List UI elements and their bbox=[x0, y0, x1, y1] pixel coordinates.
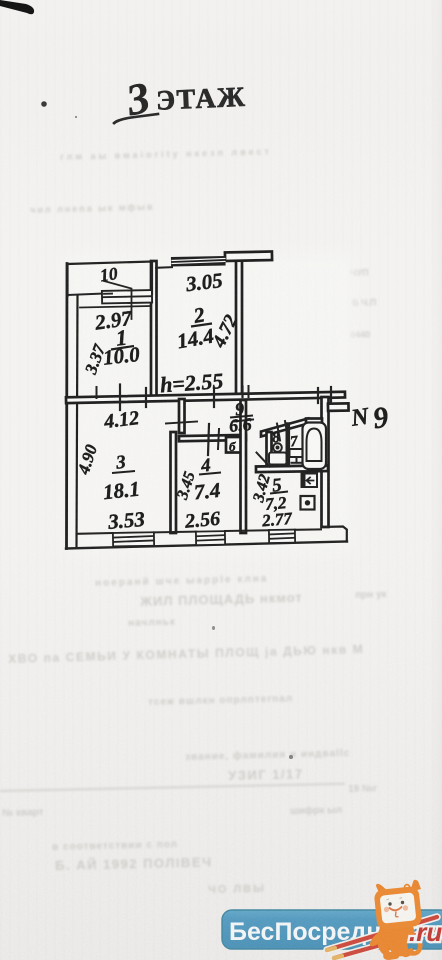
wall room3|corridor stub bbox=[179, 399, 185, 433]
svg-text:3.53: 3.53 bbox=[106, 507, 146, 534]
bath top wall piece bbox=[306, 419, 322, 424]
svg-text:7.4: 7.4 bbox=[193, 478, 222, 505]
title underline bbox=[114, 114, 158, 123]
divider overshoot tick 2 bbox=[248, 386, 250, 397]
door tick bbox=[119, 385, 121, 411]
bottom window 2 bbox=[196, 531, 225, 545]
dark speck bbox=[212, 626, 215, 630]
ghost bleed line 17 bbox=[30, 202, 155, 215]
door tick bbox=[145, 388, 147, 407]
plan paper brightening bbox=[64, 254, 354, 552]
door tick right bbox=[317, 388, 319, 403]
room2 window dark bbox=[171, 256, 226, 267]
svg-text:10.0: 10.0 bbox=[102, 342, 142, 370]
right outer wall bbox=[322, 397, 329, 527]
ghost bleed line 11 bbox=[290, 805, 342, 817]
svg-text:б: б bbox=[229, 439, 236, 454]
room1 top line bbox=[80, 306, 151, 308]
feet bbox=[383, 952, 399, 960]
divider overshoot tick bbox=[241, 387, 243, 398]
svg-text:N: N bbox=[349, 403, 372, 432]
ghost bleed line 4 bbox=[8, 642, 365, 666]
ghost bleed line 5 bbox=[148, 693, 293, 708]
balcony parapet bbox=[68, 262, 153, 297]
window balcony sill bbox=[102, 290, 152, 303]
left outer wall inner line bbox=[77, 296, 78, 548]
svg-text:2.77: 2.77 bbox=[260, 509, 294, 531]
svg-text:.ru: .ru bbox=[409, 917, 442, 947]
underline 9 bbox=[230, 416, 253, 418]
svg-text:9: 9 bbox=[371, 401, 390, 436]
ghost bleed line 15 bbox=[350, 329, 370, 340]
mascot cat bbox=[370, 880, 423, 960]
bottom right step bbox=[322, 527, 347, 542]
wall room3|room4 bbox=[171, 432, 177, 533]
ghost bleed line 10 bbox=[2, 807, 44, 819]
bottom window 1 bbox=[113, 532, 154, 546]
antenna bbox=[405, 885, 410, 890]
underline 2 bbox=[191, 324, 212, 327]
bottom window 3 bbox=[269, 530, 295, 543]
svg-text:2.56: 2.56 bbox=[183, 508, 221, 533]
door tick bbox=[213, 388, 215, 408]
left outer wall outer line bbox=[65, 264, 68, 549]
room4 top wall bbox=[179, 435, 246, 441]
vent dot box bbox=[301, 496, 315, 510]
ghost bleedthrough text lines bbox=[95, 573, 269, 589]
svg-text:10: 10 bbox=[99, 263, 119, 285]
svg-text:h=2.55: h=2.55 bbox=[159, 368, 224, 397]
ghost bleed line 8 bbox=[0, 783, 345, 792]
bath block bottom wall bbox=[256, 465, 328, 472]
jamb tick room3 door bbox=[166, 422, 197, 424]
ghost bleed line 12 bbox=[52, 839, 178, 853]
wall room1|room2 bbox=[151, 261, 157, 398]
room2 top line left bbox=[156, 266, 172, 269]
svg-text:6.6: 6.6 bbox=[228, 414, 252, 436]
ghost bleed line 13 bbox=[55, 854, 213, 873]
underline 4 bbox=[199, 473, 221, 475]
vent arrow box bbox=[302, 474, 318, 488]
stray pen stroke top-left corner bbox=[0, 0, 34, 14]
ghost bleed line 9 bbox=[348, 783, 377, 795]
watermark banner bbox=[222, 910, 442, 949]
ink speck bbox=[75, 116, 77, 118]
room4 door tick short bbox=[218, 429, 219, 449]
svg-text:3.05: 3.05 bbox=[184, 268, 224, 296]
svg-text:3: 3 bbox=[114, 452, 127, 474]
ghost bleed line 2 bbox=[355, 589, 387, 601]
toilet|bath divider dark bbox=[285, 425, 290, 466]
middle wall bbox=[66, 392, 345, 403]
ears bbox=[376, 884, 388, 895]
toilet bowl bbox=[269, 443, 287, 464]
ticks toilet door bbox=[277, 424, 280, 441]
top-right wall bar bbox=[225, 252, 272, 261]
face bbox=[388, 902, 391, 905]
svg-text:ЭТАЖ: ЭТАЖ bbox=[155, 82, 246, 117]
body bbox=[377, 922, 414, 957]
head TV bbox=[374, 886, 423, 930]
mascot pencils bbox=[327, 917, 438, 958]
bathtub bbox=[303, 423, 327, 470]
.ru text bbox=[409, 917, 442, 947]
tail bbox=[410, 935, 420, 953]
entry door side bar bbox=[328, 403, 349, 411]
door tick bbox=[96, 387, 98, 398]
ghost bleed line 16 bbox=[60, 146, 272, 162]
bottom wall inner segments bbox=[77, 529, 321, 533]
ink dot left of title bbox=[41, 101, 47, 107]
room4 door tick long bbox=[208, 424, 209, 455]
ghost bleed line 1 bbox=[140, 590, 303, 609]
bath sink bbox=[290, 449, 304, 463]
wall room4|room5 bbox=[241, 400, 247, 533]
arm bbox=[370, 930, 384, 946]
ghost bleed line 3 bbox=[128, 617, 176, 629]
underline 1 bbox=[111, 346, 134, 350]
ghost bleed line 14 bbox=[352, 297, 377, 308]
room2 right wall bbox=[236, 259, 242, 398]
ghost bleed line 7 bbox=[228, 766, 304, 783]
vent box b bbox=[226, 437, 243, 453]
svg-text:18.1: 18.1 bbox=[102, 477, 141, 505]
balcony floor line bbox=[68, 294, 103, 296]
bathroom slanted top wall bbox=[261, 419, 308, 437]
diagonal corner room5 bbox=[257, 453, 270, 467]
faint right column smudges bbox=[350, 268, 369, 278]
leader line from 10 bbox=[104, 281, 132, 319]
bottom wall outer line bbox=[66, 542, 347, 549]
underline 3 bbox=[112, 471, 135, 473]
dark speck bbox=[289, 755, 293, 759]
tick kitchen door bbox=[234, 420, 254, 422]
plan svg placeholder bbox=[0, 0, 442, 620]
toilet left wall bbox=[267, 432, 272, 467]
ghost bleed line 6 bbox=[185, 748, 350, 763]
underline 5 bbox=[270, 492, 288, 494]
svg-text:4.12: 4.12 bbox=[102, 407, 140, 433]
door tick right 2 bbox=[330, 387, 332, 402]
watermark svg placeholder bbox=[0, 840, 442, 960]
